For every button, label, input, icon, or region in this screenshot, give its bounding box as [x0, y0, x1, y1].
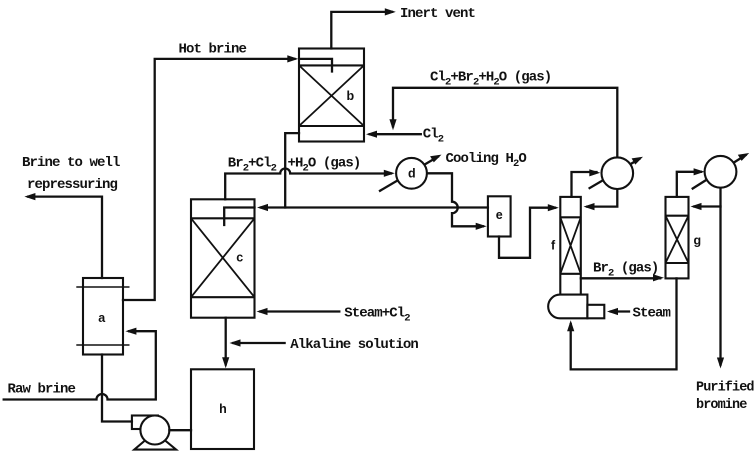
- wire: liquid from e back to tower c: [224, 204, 488, 225]
- wire: tower g bottoms recycle to reboiler: [567, 278, 676, 369]
- wire: steam+Cl2 feed arrow into tower c: [257, 308, 340, 315]
- wire: Br2 gas from f to g: [581, 274, 664, 281]
- svg-text:repressuring: repressuring: [27, 177, 118, 193]
- tower g (drying column): [666, 197, 689, 279]
- wire: inert vent line from tower b top: [331, 8, 396, 48]
- wire: cooling diagonal arrow through g condenser: [693, 153, 750, 189]
- wire: tower g overhead to condenser: [677, 168, 705, 197]
- svg-text:h: h: [219, 402, 227, 416]
- condenser d (cooler circle): [396, 158, 427, 189]
- wire: steam feed into reboiler: [607, 308, 629, 315]
- svg-text:a: a: [98, 311, 106, 325]
- svg-text:c: c: [236, 251, 243, 265]
- label Purified bromine: [696, 381, 754, 414]
- label Brine to well repressuring: [22, 155, 120, 193]
- svg-text:Hot brine: Hot brine: [179, 42, 247, 58]
- wire: tower f overhead to condenser: [572, 169, 601, 197]
- wire: condenser d outlet down to e with hop: [427, 173, 487, 230]
- tower c (packed column): [191, 199, 255, 317]
- wire: g condensate return into g: [691, 203, 721, 210]
- heat interchanger a: [76, 278, 129, 355]
- pump (circle with base): [132, 416, 176, 450]
- wire: alkaline solution feed arrow: [230, 339, 285, 346]
- wire: raw brine feed with hop, up to exchanger a inlet: [4, 328, 156, 400]
- wire: pump outlet to tank h: [169, 429, 191, 431]
- svg-text:e: e: [496, 208, 503, 222]
- condenser on tower g: [705, 156, 737, 188]
- steam reboiler on tower f: [548, 295, 604, 319]
- wire: tower b bottoms down to e-return line: [285, 133, 299, 207]
- wire: Cl2 feed into tower b: [366, 131, 421, 138]
- tower b (packed column): [299, 49, 364, 142]
- svg-text:Inert vent: Inert vent: [400, 6, 476, 22]
- condenser on tower f: [602, 157, 634, 189]
- wire: tower c overhead vapor to condenser d with hop: [225, 169, 395, 200]
- svg-text:Steam: Steam: [633, 306, 671, 322]
- wire: e bottoms up into tower f top: [499, 204, 559, 258]
- wire: brine to well line from a top: [24, 193, 102, 278]
- wire: hot brine riser from exchanger a to tower b: [123, 55, 332, 300]
- svg-text:g: g: [694, 234, 702, 248]
- svg-text:Alkaline solution: Alkaline solution: [290, 337, 418, 353]
- tower f (stripping column): [560, 197, 581, 295]
- wire: cooling water diagonal arrow through d: [380, 155, 442, 191]
- svg-text:b: b: [347, 89, 355, 103]
- svg-text:Raw brine: Raw brine: [8, 382, 76, 398]
- wire: tower c bottoms down into tank h: [222, 318, 229, 369]
- wire: f condenser condensate return to f: [584, 189, 618, 210]
- separator e: [488, 196, 511, 236]
- wire: exchanger a bottoms to pump: [102, 355, 132, 422]
- svg-text:Purified: Purified: [696, 381, 754, 396]
- wire: cooling diagonal arrow through f condenser: [590, 157, 643, 188]
- svg-text:d: d: [408, 167, 416, 181]
- tank h: [191, 369, 254, 449]
- label Br2+Cl2 +H2O (gas): [228, 156, 361, 175]
- svg-text:bromine: bromine: [696, 398, 747, 413]
- svg-text:Brine to well: Brine to well: [22, 155, 120, 171]
- wire: g condenser product line down, purified bromine arrow: [717, 188, 724, 369]
- wire: recycle Cl2+Br2+H2O gas from f condenser back to b: [389, 88, 617, 158]
